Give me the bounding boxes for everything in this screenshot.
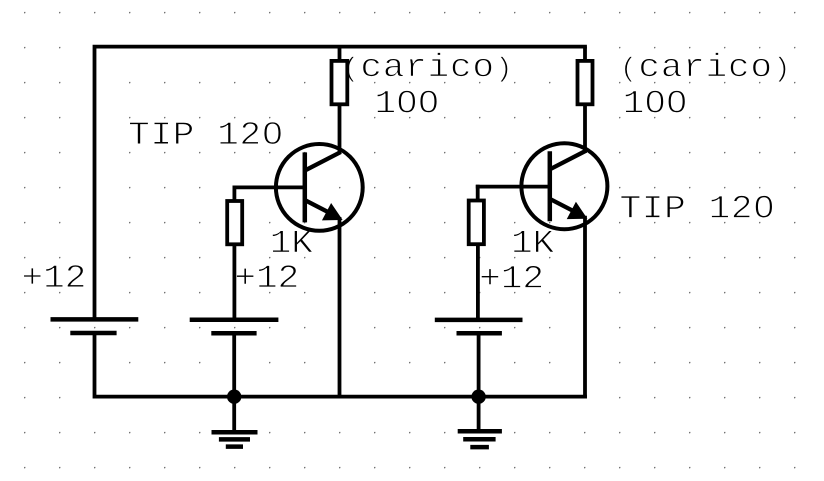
resistor R2 100 (carico): [578, 61, 593, 104]
transistor Q2 emitter arrow: [568, 203, 586, 218]
junction node at B2/ground: [227, 390, 241, 404]
label 100 for R2: [625, 90, 685, 113]
transistor Q2 TIP 120 circle: [521, 143, 607, 229]
wire junction to ground 2: [477, 397, 481, 431]
label TIP 120 for Q2: [621, 195, 773, 218]
transistor Q1 TIP 120 circle: [276, 144, 363, 231]
wire R3 to battery B2: [232, 244, 236, 321]
label 1K for R3: [272, 231, 313, 253]
ground 1 bar3: [226, 444, 243, 449]
battery B3 negative plate: [457, 331, 502, 336]
battery B2 positive plate: [190, 317, 279, 322]
label +12 for B2: [236, 265, 296, 287]
label +12 for B3: [481, 266, 541, 288]
battery B2 negative plate: [211, 331, 256, 336]
wire B3 to bottom rail: [477, 333, 481, 398]
wire junction to ground 1: [232, 397, 236, 432]
resistor R1 100 (carico): [332, 61, 348, 104]
junction node at B3/ground: [471, 390, 485, 404]
battery B1 negative plate: [70, 331, 116, 336]
wire top rail from +12 rail to R2 drop: [95, 47, 587, 321]
wire R1 to Q1 collector: [338, 104, 342, 154]
ground 2 bar1: [458, 429, 502, 434]
battery B1 positive plate (far left): [51, 317, 139, 322]
ground 1 bar2: [219, 437, 250, 442]
label (carico) for R2: [625, 52, 786, 82]
wire R4 to battery B3: [476, 244, 480, 321]
transistor Q2 emitter stroke: [550, 199, 583, 216]
wire Q2 emitter to bottom rail end: [583, 216, 587, 399]
wire base corner down to R3: [232, 186, 236, 203]
transistor Q1 emitter stroke: [305, 200, 338, 217]
wire R1 drop from top rail: [338, 47, 342, 62]
wire R2 drop from top rail: [583, 47, 587, 62]
transistor Q1 base bar: [303, 152, 308, 222]
transistor Q1 collector stroke: [305, 152, 341, 170]
ground 1 bar1: [212, 430, 258, 435]
ground 2 bar2: [463, 437, 495, 442]
wire Q2 base: [476, 185, 551, 189]
label 1K for R4: [514, 231, 555, 253]
transistor Q2 collector stroke: [550, 151, 586, 169]
wire Q1 emitter to bottom rail: [338, 217, 342, 397]
resistor R4 1K: [469, 201, 484, 245]
transistor Q2 base bar: [548, 151, 553, 221]
battery B3 positive plate: [435, 318, 523, 323]
label +12 for B1: [24, 265, 84, 287]
label TIP 120 for Q1: [130, 122, 282, 145]
resistor R3 1K: [227, 201, 242, 244]
wire B2 to bottom rail: [232, 333, 236, 398]
label 100 for R1: [377, 90, 437, 113]
ground 2 bar3: [470, 445, 489, 450]
wire Q1 base: [233, 185, 306, 189]
transistor Q1 emitter arrow: [323, 204, 341, 219]
label (carico) for R1: [347, 52, 508, 82]
wire base corner down to R4: [476, 185, 480, 202]
wire R2 to Q2 collector: [583, 104, 587, 153]
wire B1 to bottom rail corner: [95, 333, 587, 397]
